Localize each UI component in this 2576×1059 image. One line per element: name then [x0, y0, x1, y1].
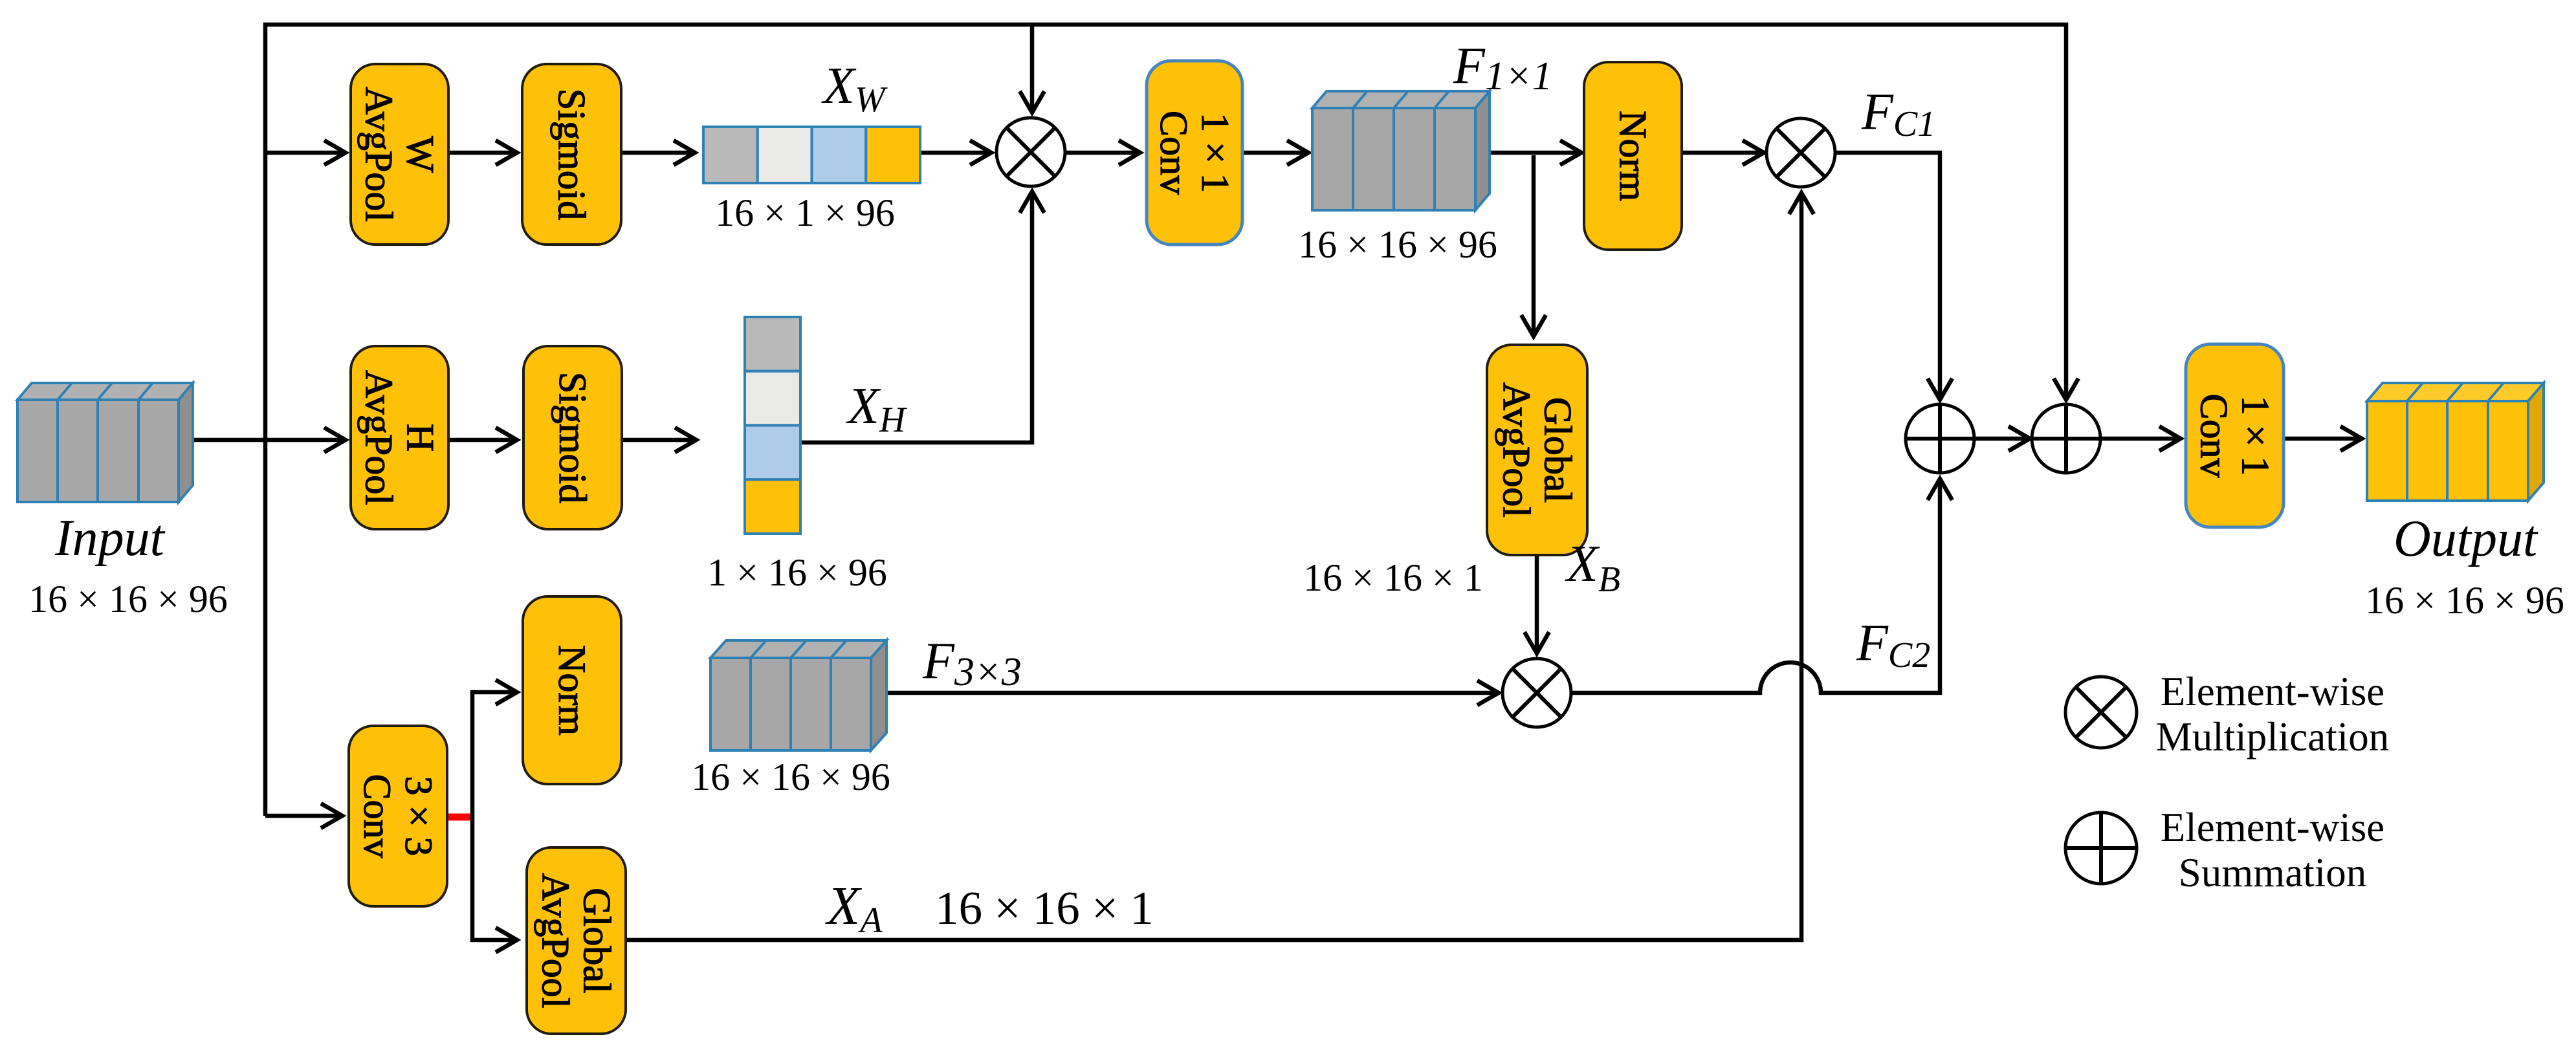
svg-text:1 × 1Conv: 1 × 1Conv [1152, 111, 1237, 195]
svg-text:16 × 1 × 96: 16 × 1 × 96 [715, 191, 895, 234]
svg-text:16 × 16 × 1: 16 × 16 × 1 [1303, 556, 1483, 599]
svg-text:Sigmoid: Sigmoid [551, 89, 593, 220]
svg-text:16 × 16 × 96: 16 × 16 × 96 [1298, 223, 1497, 266]
svg-text:Sigmoid: Sigmoid [551, 372, 594, 503]
svg-text:GlobalAvgPool: GlobalAvgPool [1495, 382, 1580, 518]
svg-text:Multiplication: Multiplication [2156, 714, 2389, 759]
svg-text:16 × 16 × 96: 16 × 16 × 96 [691, 756, 890, 798]
svg-text:3 × 3Conv: 3 × 3Conv [356, 774, 440, 858]
svg-text:16 × 16 × 96: 16 × 16 × 96 [2365, 579, 2564, 622]
svg-text:Norm: Norm [1612, 111, 1655, 201]
svg-text:1 × 16 × 96: 1 × 16 × 96 [707, 551, 887, 594]
svg-text:Input: Input [54, 510, 166, 567]
svg-text:16 × 16 × 96: 16 × 16 × 96 [28, 578, 228, 620]
svg-text:Norm: Norm [551, 645, 593, 736]
svg-text:16 × 16 × 1: 16 × 16 × 1 [935, 882, 1154, 934]
svg-text:1 × 1Conv: 1 × 1Conv [2193, 393, 2277, 477]
svg-text:Summation: Summation [2179, 850, 2367, 895]
svg-text:Element-wise: Element-wise [2161, 669, 2384, 714]
svg-text:GlobalAvgPool: GlobalAvgPool [534, 873, 619, 1009]
svg-text:Output: Output [2394, 510, 2538, 567]
svg-text:Element-wise: Element-wise [2161, 805, 2384, 850]
